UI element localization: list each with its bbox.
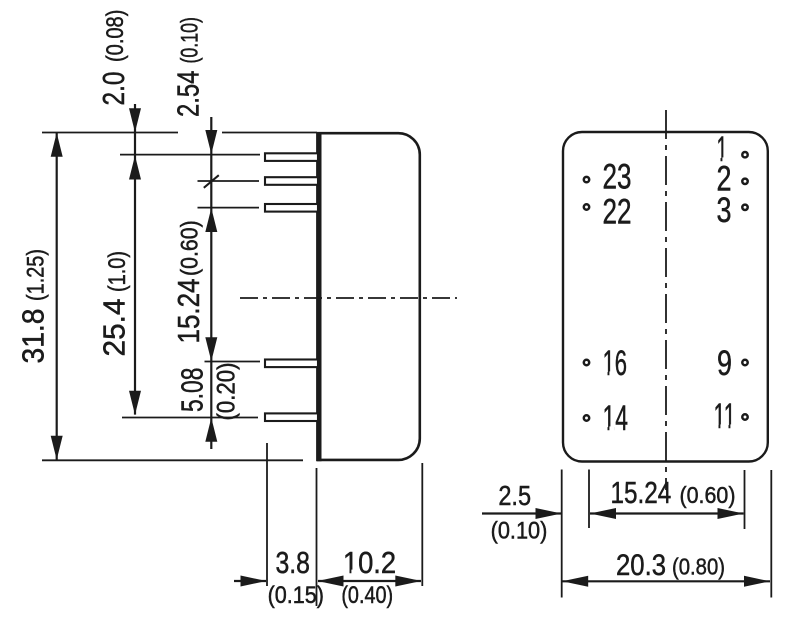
svg-text:(0.08): (0.08) bbox=[102, 10, 129, 62]
arrow 3.8 (right, tip at pin-end ext) bbox=[241, 576, 267, 587]
arrow 31.8 bottom (down) bbox=[51, 436, 63, 460]
pin1 extension line bbox=[120, 154, 260, 156]
pin dot 1 bbox=[742, 152, 747, 157]
pin dot 16 bbox=[584, 360, 589, 365]
svg-text:2.0: 2.0 bbox=[96, 72, 131, 106]
dim line 3.8 bbox=[234, 580, 266, 582]
pin 2 (side) bbox=[265, 177, 318, 185]
arrow 25.4 bottom (down, tip near pin5 line) bbox=[129, 391, 141, 415]
horizontal centerline (left view) bbox=[240, 297, 457, 299]
ext line below case left edge bbox=[561, 470, 563, 598]
svg-text:(0.40): (0.40) bbox=[341, 582, 393, 609]
arrow 15.24 top (up, tip at pin3 line) bbox=[205, 208, 217, 232]
arrow 25.4 top (up, tip at pin1 line) bbox=[129, 156, 141, 180]
vertical centerline (bottom view) bbox=[665, 110, 667, 490]
arrow 15.24 right bbox=[718, 508, 744, 519]
pin dot 22 bbox=[584, 204, 589, 209]
pin3 extension line bbox=[198, 207, 260, 209]
pin 1 (side) bbox=[265, 153, 318, 161]
svg-text:11: 11 bbox=[714, 396, 736, 436]
svg-text:25.4: 25.4 bbox=[97, 299, 132, 357]
pin5 extension line bbox=[122, 417, 258, 419]
svg-text:14: 14 bbox=[603, 398, 629, 438]
svg-text:3.8: 3.8 bbox=[275, 545, 310, 580]
svg-text:31.8: 31.8 bbox=[16, 309, 51, 364]
svg-text:9: 9 bbox=[717, 343, 732, 383]
svg-text:(0.10): (0.10) bbox=[491, 518, 548, 545]
ext line below case left face bbox=[316, 468, 318, 606]
svg-text:(0.15): (0.15) bbox=[268, 582, 324, 609]
svg-text:15.24: 15.24 bbox=[171, 279, 206, 344]
svg-text:(0.80): (0.80) bbox=[672, 554, 725, 580]
pin 3 (side) bbox=[265, 204, 318, 212]
svg-text:20.3: 20.3 bbox=[616, 549, 666, 582]
arrow 15.24 left bbox=[590, 508, 616, 519]
ext line below right pin column bbox=[744, 470, 746, 529]
arrow 5.08 (up, tip at pin5 line) bbox=[205, 418, 217, 442]
svg-text:(0.20): (0.20) bbox=[213, 363, 241, 421]
ext line below case right edge bbox=[770, 470, 772, 598]
pin4 extension line bbox=[205, 361, 261, 363]
package left face (thick edge) bbox=[316, 132, 321, 461]
pin dot 3 bbox=[742, 205, 747, 210]
svg-text:15.24: 15.24 bbox=[611, 475, 672, 510]
arrow 2.0 (down, tip at case top) bbox=[129, 108, 141, 132]
svg-text:22: 22 bbox=[603, 192, 632, 232]
svg-text:2.54: 2.54 bbox=[171, 71, 206, 117]
svg-text:(0.10): (0.10) bbox=[177, 17, 204, 63]
pin dot 23 bbox=[584, 177, 589, 182]
pin 4 (side) bbox=[265, 360, 318, 368]
pin 5 (side) bbox=[265, 413, 318, 421]
ext line below left pin column bbox=[588, 470, 590, 529]
svg-text:(1.0): (1.0) bbox=[104, 251, 131, 292]
arrow 20.3 right bbox=[744, 576, 770, 587]
case-bottom extension line bbox=[42, 459, 303, 461]
svg-text:10.2: 10.2 bbox=[343, 545, 396, 580]
pin2 extension line bbox=[198, 180, 260, 182]
ext line below pin end (3.8 dim) bbox=[266, 443, 268, 586]
dim line 10.2 bbox=[318, 580, 421, 582]
white patches to remove '1' foot serifs (target font has footless 1) bbox=[344, 157, 736, 574]
case-top extension line bbox=[42, 132, 178, 134]
dim line 15.24 bbox=[590, 512, 744, 514]
arrow 20.3 left bbox=[562, 576, 588, 587]
pin dot 2 bbox=[742, 179, 747, 184]
pin dot 11 bbox=[742, 414, 747, 419]
svg-text:3: 3 bbox=[717, 190, 732, 230]
pin dot 14 bbox=[584, 415, 589, 420]
dim line 2.0 / 25.4 bbox=[134, 104, 136, 415]
oblique tick at pin2 (2.54 dim) bbox=[204, 175, 219, 188]
dim line 31.8 bbox=[56, 133, 58, 460]
arrow 2.5 (right, tip at case-left ext) bbox=[536, 508, 562, 519]
dim line 2.54 / 15.24 / 5.08 bbox=[210, 117, 212, 449]
svg-text:23: 23 bbox=[603, 157, 632, 197]
arrow 10.2 right (tip at case right ext) bbox=[395, 576, 421, 587]
ext line below case right edge bbox=[421, 463, 423, 586]
svg-text:(0.60): (0.60) bbox=[177, 220, 204, 276]
svg-text:5.08: 5.08 bbox=[175, 368, 210, 412]
svg-text:(0.60): (0.60) bbox=[680, 482, 736, 508]
svg-text:(1.25): (1.25) bbox=[23, 249, 50, 301]
arrow 15.24 bottom (down, tip at pin4 line) bbox=[205, 337, 217, 361]
arrow 10.2 left (tip at case left ext) bbox=[318, 576, 344, 587]
arrow 31.8 top (up) bbox=[51, 133, 63, 157]
dim line 20.3 bbox=[563, 580, 771, 582]
package body side outline bbox=[317, 133, 420, 460]
svg-text:16: 16 bbox=[603, 343, 628, 383]
arrow 2.54 (down, tip at pin1 line) bbox=[205, 130, 217, 154]
pin dot 9 bbox=[742, 360, 747, 365]
dim line 2.5 bbox=[482, 512, 561, 514]
package body bottom-view outline bbox=[563, 132, 768, 462]
svg-text:2.5: 2.5 bbox=[498, 480, 531, 511]
